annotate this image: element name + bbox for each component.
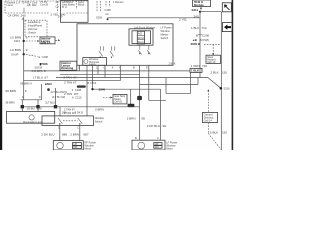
arrow up to module: [200, 7, 202, 11]
dashed arrow up from ground run: [207, 89, 209, 112]
svg-text:687: 687: [84, 133, 89, 137]
svg-text:C+: C+: [56, 4, 60, 8]
svg-text:Dim 14: Dim 14: [41, 41, 51, 45]
dashed arrow to ref box: [103, 97, 112, 99]
illuminated entry lamp box: [7, 112, 55, 124]
svg-text:2 BRN: 2 BRN: [95, 107, 104, 111]
svg-text:LT BLU 67: LT BLU 67: [33, 75, 48, 79]
svg-text:Down: Down: [138, 40, 145, 44]
terminal letters under master switch: [78, 65, 148, 69]
label 1 BLK 710: [191, 26, 207, 30]
LF power window master switch box: [77, 24, 173, 66]
label 2 DK BLU 688: [41, 133, 67, 137]
wire: ground horizontal: [166, 92, 191, 94]
node S206 junction dot: [107, 18, 109, 20]
pin A+ text: [56, 0, 60, 8]
svg-text:(M PWI): (M PWI): [200, 38, 210, 42]
svg-text:Cell 10: Cell 10: [207, 60, 216, 64]
dashed run below ref box: [208, 123, 221, 150]
svg-text:2 BLK: 2 BLK: [169, 62, 176, 66]
svg-text:188: 188: [62, 110, 67, 114]
svg-text:E C208: E C208: [39, 55, 49, 59]
cell header text: [27, 0, 48, 7]
svg-text:S216: S216: [14, 39, 21, 43]
svg-text:Wind: Wind: [138, 36, 144, 40]
label 2 BLK 150: [211, 70, 228, 74]
stub wire C to rail3: [104, 65, 106, 77]
grommet dots row: [21, 105, 58, 108]
svg-text:AB, 3E2: AB, 3E2: [27, 3, 37, 7]
ref box power dist cell: [206, 55, 221, 64]
svg-text:9H: 9H: [163, 124, 167, 128]
wire: stub from dot to feed: [107, 18, 109, 19]
svg-text:▮P306: ▮P306: [40, 62, 49, 66]
exterior lamps text: [7, 1, 29, 8]
svg-text:A/D: A/D: [138, 32, 142, 36]
headlamp switch dashed box: [25, 20, 47, 37]
dashed arrow to interior lamps box: [26, 40, 39, 42]
wire: stair stub vertical: [148, 89, 150, 100]
svg-text:■S23: ■S23: [45, 82, 52, 86]
stub wire L to rail2: [97, 65, 99, 74]
switch contacts center: [138, 45, 150, 54]
wire: rail 1: [24, 70, 190, 72]
svg-text:GAUP: GAUP: [11, 52, 19, 56]
svg-text:150: 150: [222, 131, 227, 135]
wire: right vertical 200: [199, 12, 201, 78]
svg-text:S8 BRN: S8 BRN: [5, 89, 16, 93]
svg-text:688: 688: [62, 133, 67, 137]
label LG BRN 9 second: [10, 48, 28, 52]
wire: switch to motor right: [79, 125, 81, 140]
label 5 BLK 150: [210, 131, 227, 135]
svg-text:H C210: H C210: [72, 96, 82, 100]
svg-text:Dimming: Dimming: [61, 66, 73, 70]
svg-text:A: A: [22, 17, 24, 21]
svg-text:LF Power: LF Power: [161, 26, 172, 30]
RF window motor box: [53, 141, 83, 150]
window switch label: [95, 116, 104, 123]
svg-text:Motor: Motor: [85, 147, 92, 150]
svg-text:1 ORN: 1 ORN: [191, 64, 200, 68]
interior lamps dimming box: [60, 61, 77, 70]
svg-text:Cont B: Cont B: [40, 2, 48, 6]
wire: main feed horizontal 340: [108, 17, 201, 19]
dashed lead to C208: [26, 55, 48, 60]
connector blob PWD: [77, 85, 86, 87]
svg-text:B C210: B C210: [88, 81, 97, 85]
terminals D C: [58, 126, 79, 130]
wire: drop D: [41, 84, 43, 100]
junction dot mid: [47, 88, 50, 91]
terminals B A: [135, 136, 159, 140]
svg-text:2LT BU GR: 2LT BU GR: [52, 95, 65, 99]
interior lamps ref box: [40, 37, 55, 45]
wire: rail 4: [24, 80, 121, 82]
svg-text:5 BLK: 5 BLK: [210, 131, 218, 135]
left scan border: [0, 0, 2, 150]
svg-text:›Hood/Panel: ›Hood/Panel: [28, 23, 43, 27]
svg-text:1 BLK: 1 BLK: [191, 69, 199, 73]
svg-text:2 BRN: 2 BRN: [127, 116, 136, 120]
ref box power window cell: [113, 94, 127, 104]
wire: switch to motor left: [59, 125, 61, 140]
label LG BRN 9: [10, 35, 28, 39]
LF motor label: [166, 140, 177, 150]
svg-text:B: B: [196, 33, 198, 37]
svg-text:S8 BRN A: S8 BRN A: [20, 81, 32, 85]
stub wire A to rail4: [119, 65, 121, 80]
svg-text:E: E: [146, 65, 148, 69]
wire: left main vertical: [23, 17, 25, 100]
splice S500: [191, 42, 221, 46]
svg-text:Master: Master: [161, 32, 169, 36]
label 2 DK BLU 9H: [147, 124, 167, 128]
svg-text:2 YEL: 2 YEL: [179, 17, 187, 21]
fuse block box: [61, 0, 89, 22]
svg-text:nst: nst: [105, 12, 109, 16]
svg-text:2 YEL 340: 2 YEL 340: [51, 12, 66, 16]
svg-text:18 BU 750: 18 BU 750: [27, 106, 42, 110]
wire B down to motor: [139, 65, 141, 140]
svg-text:K: K: [112, 65, 114, 69]
wire: link stub right: [197, 78, 199, 85]
wire: drop to window switch: [55, 88, 57, 107]
svg-text:Cell 81: Cell 81: [114, 99, 123, 103]
svg-text:B: B: [133, 65, 135, 69]
splice S217: [11, 52, 25, 56]
label M PWI row: [192, 38, 209, 42]
svg-text:2 TAN 67: 2 TAN 67: [64, 75, 78, 79]
svg-text:DN: DN: [74, 145, 78, 149]
stub wire C to rail1: [78, 65, 80, 71]
svg-text:2 DK BLU: 2 DK BLU: [41, 133, 54, 137]
window switch box: [42, 116, 94, 126]
icon: diagonal arrow button: [222, 3, 231, 12]
svg-text:›Dimmer: ›Dimmer: [28, 27, 38, 31]
DRL module box: [193, 0, 211, 7]
svg-text:B: B: [135, 136, 137, 140]
svg-text:S340: S340: [99, 88, 106, 92]
window illumination lamp box: [83, 57, 107, 66]
svg-text:Block: Block: [78, 3, 85, 7]
splice S216: [14, 39, 25, 43]
wire: rail 3: [56, 77, 208, 79]
boxed label 1 BLK: [190, 68, 202, 72]
label 2 BRN 9D: [127, 116, 146, 120]
svg-text:S341: S341: [192, 8, 199, 12]
wire: switch feed left: [59, 107, 61, 116]
wire: drop to rail5: [130, 89, 132, 107]
svg-text:Motor: Motor: [166, 146, 173, 150]
wire: rail 5: [21, 106, 140, 108]
svg-text:S500 B: S500 B: [191, 42, 200, 46]
icon: back arrow button: [222, 23, 232, 32]
master switch label: [161, 26, 172, 40]
right scan border: [232, 0, 234, 150]
connector C499 dashed leads: [97, 1, 110, 12]
svg-text:C-D B/PA B: C-D B/PA B: [32, 69, 46, 73]
svg-text:2LT BLU: 2LT BLU: [45, 100, 55, 104]
wire: rail 2: [60, 73, 140, 75]
terminals A D: [22, 95, 41, 99]
svg-text:B A: B A: [62, 5, 67, 9]
svg-text:Switch: Switch: [95, 119, 103, 123]
svg-text:LG BRN: LG BRN: [10, 48, 21, 52]
label 1 ORN 740: [191, 64, 208, 68]
exit arrow right: [56, 39, 61, 41]
connector blob P105: [128, 104, 135, 107]
dashed box: exterior lamps cell: [5, 1, 88, 13]
svg-text:A: A: [157, 136, 159, 140]
wire: jog to right edge: [200, 11, 221, 13]
wire stub inside fuse cell: [23, 8, 25, 13]
svg-text:Module: Module: [194, 3, 204, 7]
svg-text:150: 150: [222, 70, 227, 74]
svg-text:LG BRN: LG BRN: [10, 35, 21, 39]
wire: mid rail to motor A: [93, 88, 161, 90]
svg-text:S8 BRN: S8 BRN: [5, 100, 14, 104]
svg-text:A: A: [22, 95, 24, 99]
wire E down to rail5: [148, 65, 150, 89]
splice S341: [192, 8, 202, 13]
svg-text:C: C: [77, 126, 79, 130]
svg-text:2LT BLU/GPN: 2LT BLU/GPN: [51, 90, 67, 94]
svg-text:1 Denton: 1 Denton: [113, 0, 124, 4]
svg-text:Window: Window: [161, 29, 170, 33]
connector blob on wire B: [137, 96, 142, 100]
svg-text:C499: C499: [105, 8, 112, 12]
svg-text:Cell 14: Cell 14: [204, 118, 213, 122]
wire: motor A vertical: [160, 89, 162, 140]
svg-text:S206: S206: [96, 15, 103, 19]
RF motor label: [85, 141, 97, 151]
svg-text:2 DK BLU: 2 DK BLU: [147, 124, 160, 128]
svg-text:2 BRN: 2 BRN: [70, 133, 79, 137]
wire: cross link horizontal: [140, 84, 199, 86]
svg-text:710: 710: [202, 26, 207, 30]
fuse names text: [62, 0, 75, 9]
svg-text:2 DK B: 2 DK B: [75, 110, 83, 114]
svg-text:2 BLK: 2 BLK: [211, 70, 219, 74]
label 2 BRN 687: [70, 133, 89, 137]
splice S316: [220, 86, 231, 90]
label S8 BRN 9: [5, 89, 27, 93]
wire 2 TAN long down: [86, 65, 88, 116]
wire: ground stub: [165, 78, 167, 94]
svg-text:D: D: [39, 95, 41, 99]
svg-text:1 BLK: 1 BLK: [191, 26, 199, 30]
connector C200: [196, 33, 210, 37]
svg-text:Lams: Lams: [7, 3, 14, 7]
svg-text:2 TAN 67: 2 TAN 67: [64, 80, 77, 84]
fuse block label: [78, 0, 85, 7]
svg-text:C200: C200: [202, 33, 210, 37]
svg-text:A+: A+: [56, 0, 60, 4]
LF window motor box: [132, 140, 165, 150]
dashed arrow to cell box: [212, 44, 214, 55]
nested switch detail boxes: [129, 29, 153, 45]
svg-text:Illuminated Lamp: Illuminated Lamp: [23, 120, 43, 124]
wire: left drop to illum box: [21, 100, 23, 112]
wire: far right vertical: [220, 12, 222, 150]
ref box ground dist cell: [203, 112, 218, 122]
svg-text:S316: S316: [224, 86, 231, 90]
switch contacts left pair: [99, 46, 115, 58]
wire 2 YEL down to S340: [92, 65, 94, 89]
svg-text:Switch: Switch: [161, 36, 169, 40]
wire: short header line: [21, 99, 42, 101]
svg-text:DN: DN: [155, 145, 159, 149]
splice S340: [91, 88, 105, 92]
wire: diagonal to splice S316: [208, 78, 221, 89]
wire: mid drop to illum box: [37, 100, 39, 112]
svg-text:740: 740: [202, 64, 207, 68]
wire: stair stub horizontal: [149, 99, 166, 101]
svg-text:340: 340: [194, 14, 199, 18]
wire: ground drop from BLK box: [190, 72, 192, 93]
svg-text:›Switch: ›Switch: [28, 31, 37, 35]
